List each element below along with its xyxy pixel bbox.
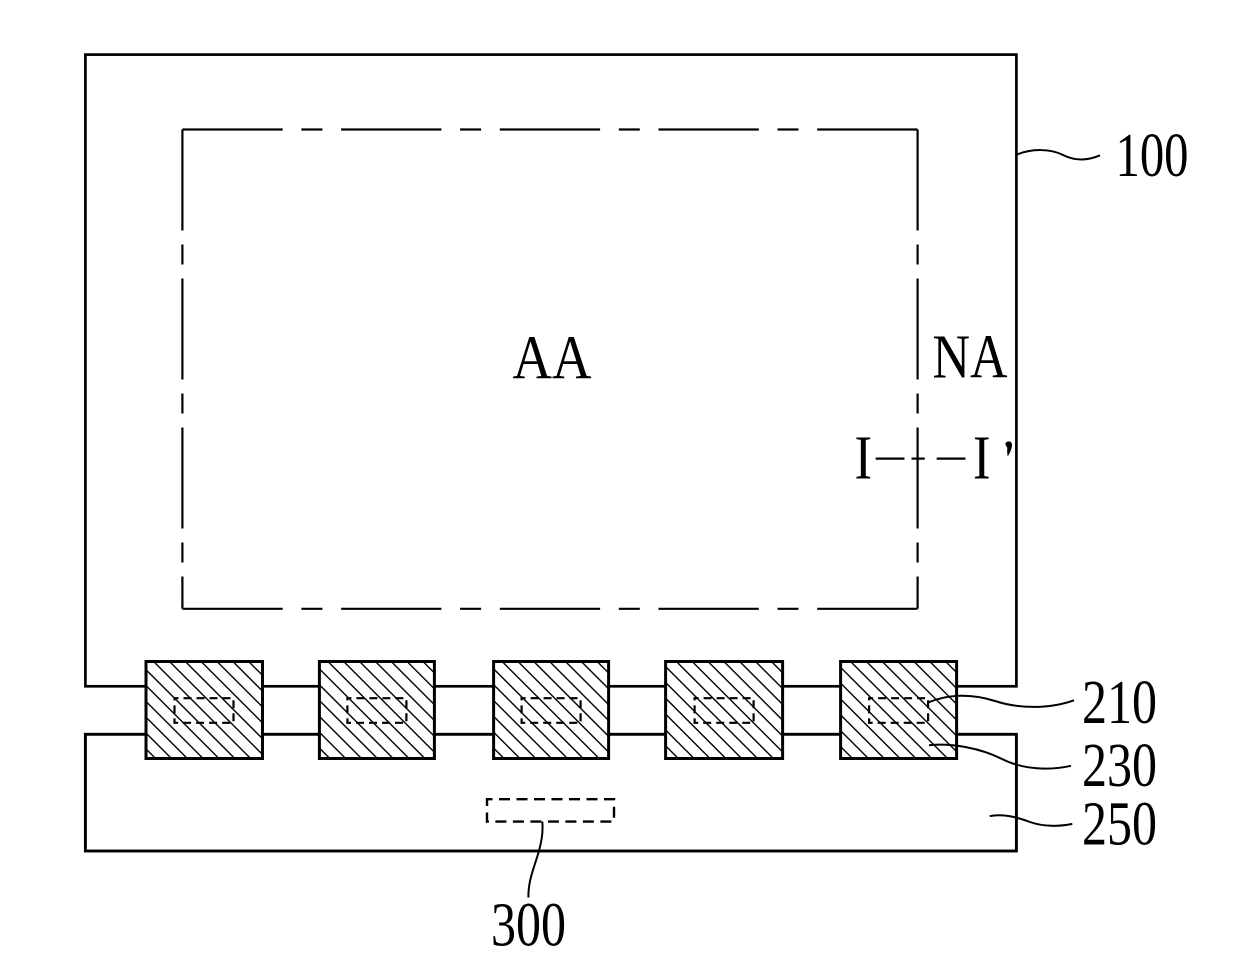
svg-text:300: 300: [491, 892, 566, 960]
svg-text:NA: NA: [933, 324, 1008, 392]
svg-text:250: 250: [1082, 791, 1157, 859]
svg-text:100: 100: [1116, 122, 1189, 190]
svg-text:210: 210: [1082, 669, 1157, 737]
svg-text:I: I: [973, 425, 991, 493]
svg-text:AA: AA: [513, 325, 592, 393]
svg-text:I: I: [854, 425, 872, 493]
